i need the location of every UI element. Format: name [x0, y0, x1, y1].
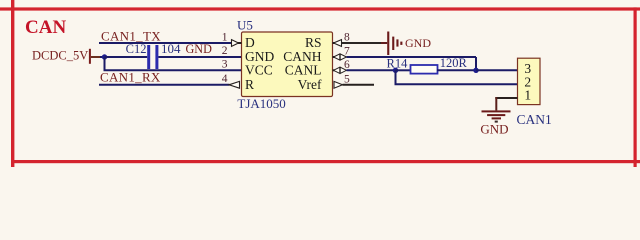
- sheet border left: [11, 0, 14, 167]
- wire DCDC_5V to junction: [100, 56, 105, 58]
- svg-text:5: 5: [344, 74, 350, 86]
- svg-text:RS: RS: [305, 35, 322, 50]
- pin 1 D: [222, 32, 255, 51]
- wire to pin 3 VCC: [104, 69, 242, 71]
- node junction CANH: [473, 68, 478, 73]
- wire pin 5 stub: [343, 84, 375, 86]
- svg-text:CAN1_RX: CAN1_RX: [100, 70, 161, 85]
- svg-text:GND: GND: [405, 36, 431, 50]
- power port DCDC_5V: [32, 49, 101, 64]
- wire CANL to connector pin 2: [395, 83, 518, 85]
- svg-text:GND: GND: [480, 122, 508, 137]
- svg-text:Vref: Vref: [298, 77, 322, 92]
- svg-text:2: 2: [222, 45, 228, 57]
- wire pin 8 to ground: [342, 42, 382, 44]
- svg-text:TJA1050: TJA1050: [237, 96, 285, 111]
- svg-text:4: 4: [222, 73, 228, 85]
- resistor R14: [387, 56, 468, 74]
- node junction 5V: [102, 54, 107, 59]
- IC U5 TJA1050 body: [242, 32, 333, 97]
- pin 7 CANH: [283, 46, 350, 65]
- connector CAN1 body: [518, 58, 541, 104]
- wire CAN1_TX to pin 1: [99, 42, 232, 44]
- svg-text:1: 1: [524, 88, 531, 103]
- svg-text:U5: U5: [237, 18, 253, 33]
- svg-text:R14: R14: [387, 56, 409, 70]
- svg-text:120R: 120R: [440, 56, 468, 70]
- wire junction to R14: [396, 69, 412, 71]
- sheet border top: [0, 7, 640, 10]
- svg-text:8: 8: [344, 32, 350, 44]
- capacitor C12: [126, 41, 181, 69]
- wire junction down: [104, 57, 106, 70]
- pin 4 R: [222, 73, 254, 92]
- wire CANL junction down: [395, 70, 397, 84]
- svg-text:D: D: [245, 35, 255, 50]
- wire to connector pin 3: [476, 69, 518, 71]
- wire CANH down: [475, 57, 477, 70]
- svg-text:DCDC_5V: DCDC_5V: [32, 49, 88, 63]
- svg-text:CAN: CAN: [25, 17, 66, 38]
- svg-text:104: 104: [161, 41, 181, 56]
- wire R14 to junction CANH: [437, 69, 476, 71]
- pin 2 GND: [222, 45, 275, 64]
- ground power symbol at RS: [387, 32, 431, 56]
- earth ground symbol: [480, 110, 510, 136]
- svg-text:R: R: [245, 77, 254, 92]
- pin 3 VCC: [222, 59, 273, 78]
- wire C12 to pin 2 GND: [158, 56, 241, 58]
- svg-text:C12: C12: [126, 42, 147, 56]
- pin 5 Vref: [298, 74, 350, 92]
- wire pin 6 CANL horizontal: [347, 69, 396, 71]
- sheet border bottom: [11, 160, 640, 163]
- svg-text:VCC: VCC: [245, 62, 273, 77]
- sheet border right: [634, 7, 637, 167]
- svg-text:1: 1: [222, 32, 228, 44]
- svg-text:GND: GND: [186, 42, 213, 56]
- svg-text:CANL: CANL: [285, 62, 322, 77]
- wire connector pin 1 to ground: [495, 97, 517, 99]
- wire junction to C12: [105, 56, 148, 58]
- svg-text:3: 3: [222, 59, 228, 71]
- node junction CANL: [393, 68, 398, 73]
- svg-text:CAN1: CAN1: [517, 112, 552, 127]
- pin 8 RS: [305, 32, 350, 51]
- wire pin 7 CANH horizontal: [347, 56, 477, 58]
- pin 6 CANL: [285, 59, 350, 77]
- wire CAN1_RX to pin 4: [99, 84, 230, 86]
